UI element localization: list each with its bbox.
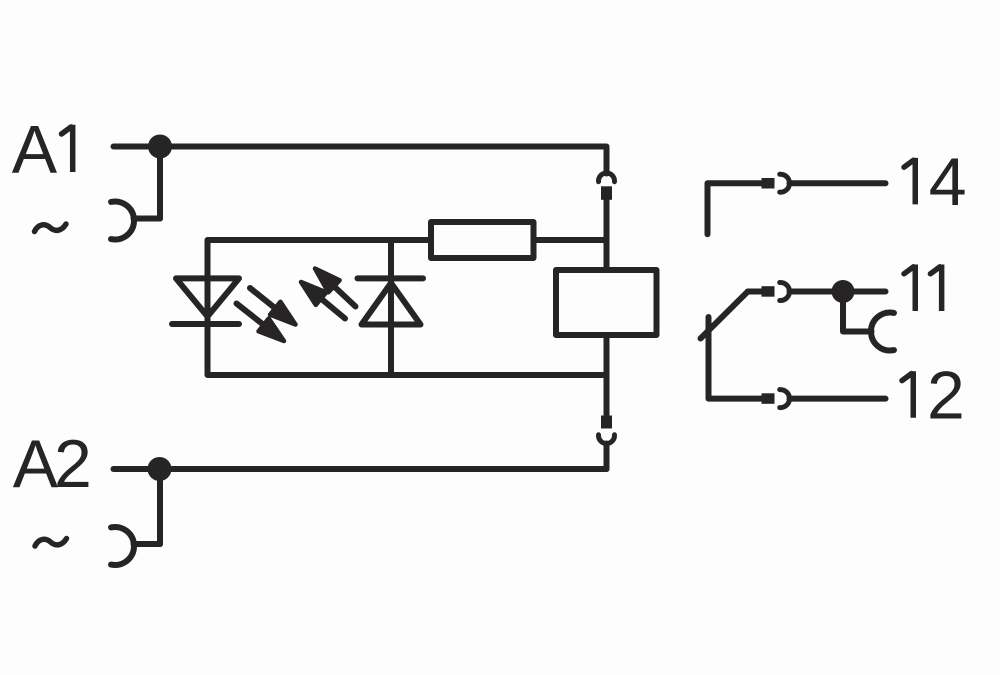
svg-text:A: A	[13, 426, 59, 502]
svg-text:2: 2	[927, 358, 965, 434]
svg-text:4: 4	[929, 144, 967, 220]
svg-text:2: 2	[54, 426, 92, 502]
svg-text:A: A	[12, 112, 58, 188]
